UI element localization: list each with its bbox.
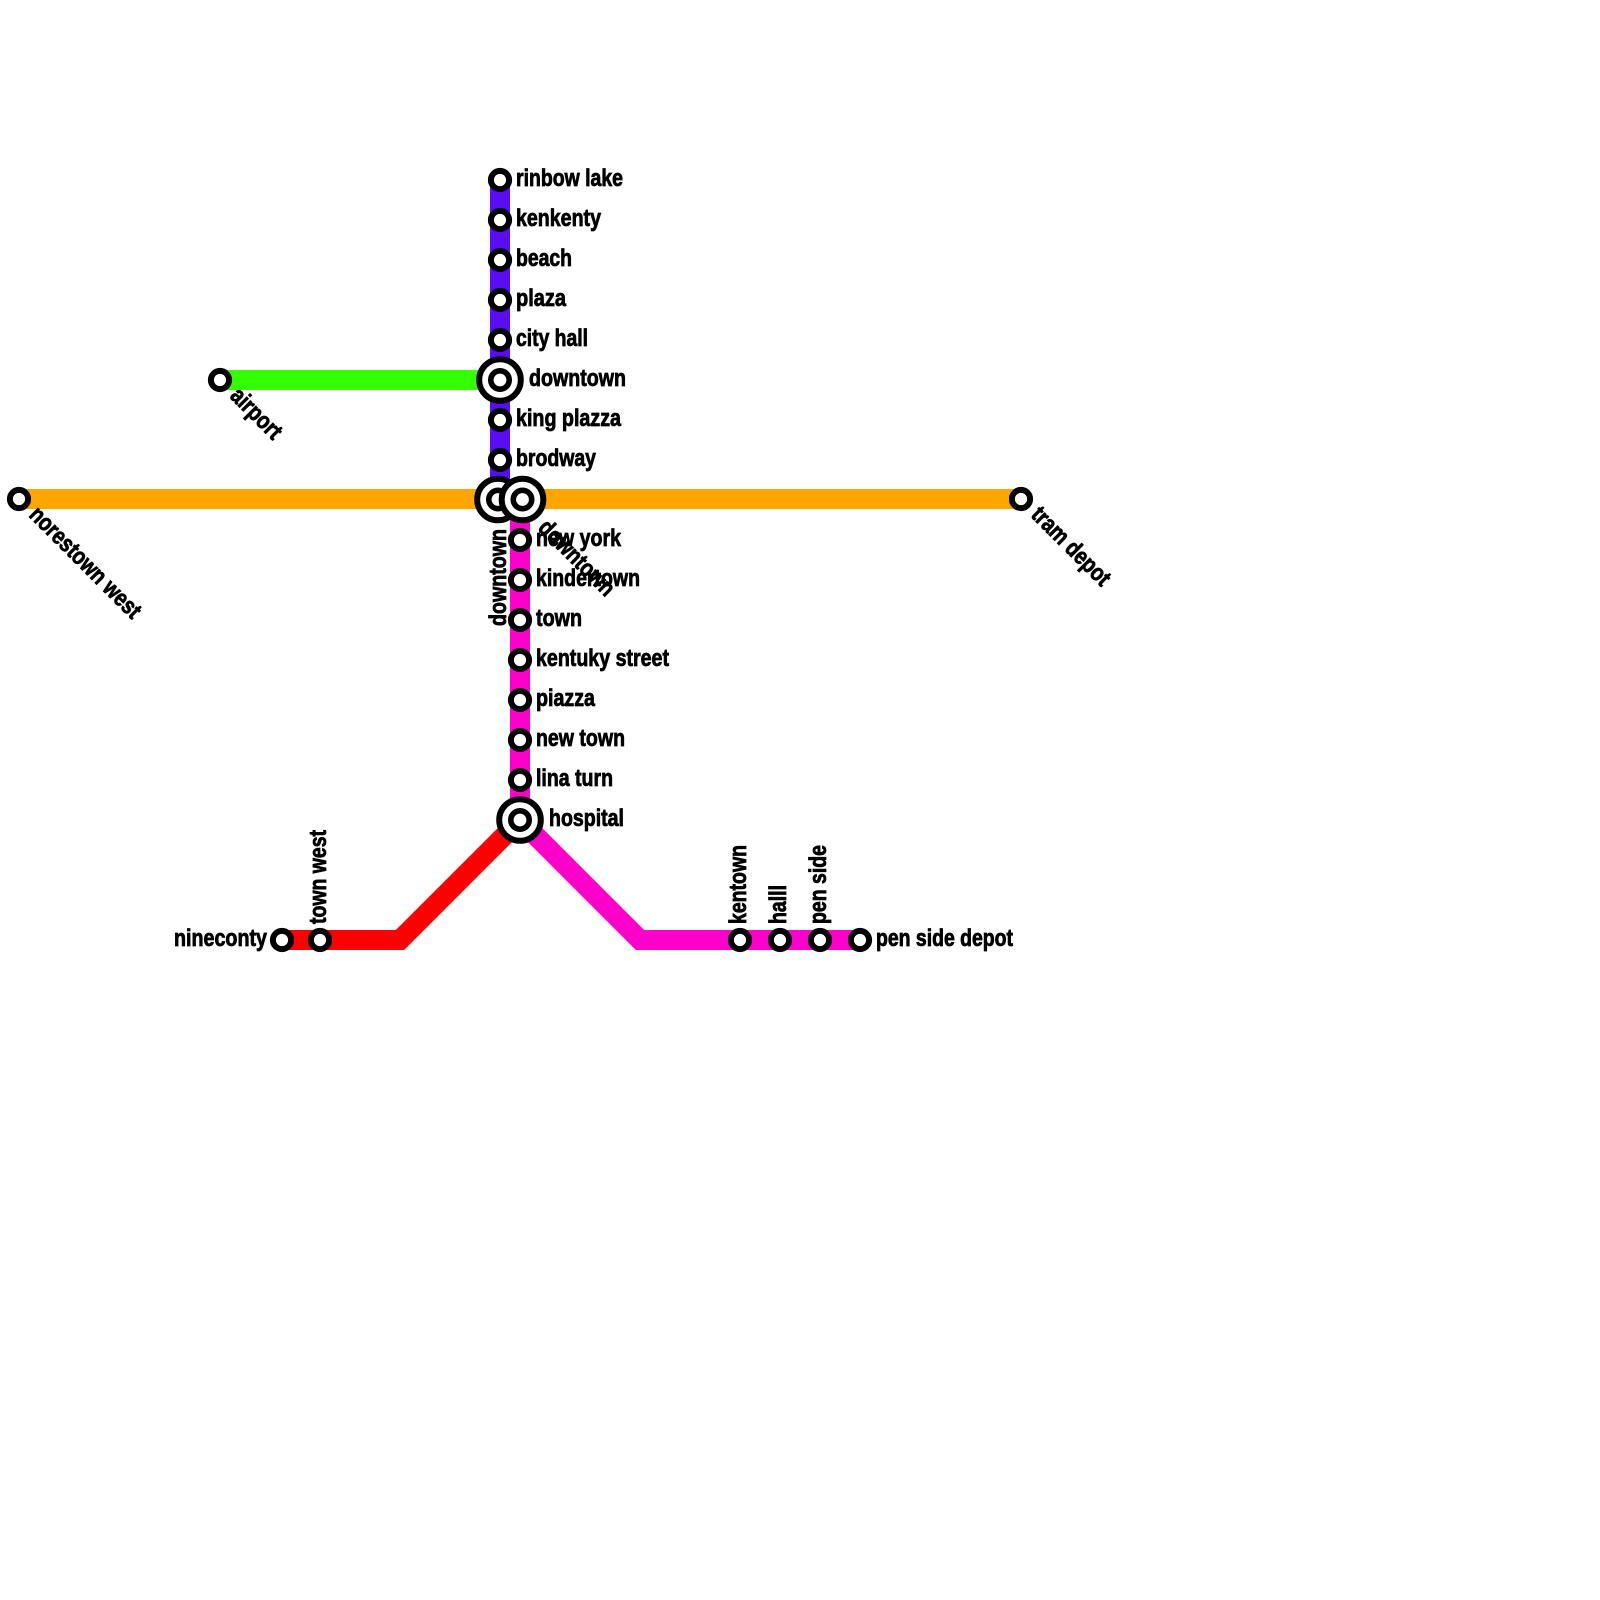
station town bbox=[511, 611, 529, 629]
station king plazza bbox=[491, 411, 509, 429]
svg-text:lina turn: lina turn bbox=[536, 765, 613, 792]
station beach bbox=[491, 251, 509, 269]
station kindertown bbox=[511, 571, 529, 589]
station piazza bbox=[511, 691, 529, 709]
svg-text:king plazza: king plazza bbox=[516, 405, 622, 432]
svg-text:new town: new town bbox=[536, 725, 625, 752]
station kenkenty bbox=[491, 211, 509, 229]
station town west bbox=[311, 931, 329, 949]
interchange hospital bbox=[499, 799, 541, 841]
svg-text:plaza: plaza bbox=[516, 285, 567, 312]
station nineconty bbox=[273, 931, 291, 949]
svg-text:brodway: brodway bbox=[516, 445, 597, 472]
station lina turn bbox=[511, 771, 529, 789]
svg-text:halll: halll bbox=[765, 885, 792, 924]
svg-text:kentuky street: kentuky street bbox=[536, 645, 669, 672]
svg-text:piazza: piazza bbox=[536, 685, 596, 712]
station kentuky street bbox=[511, 651, 529, 669]
svg-text:hospital: hospital bbox=[549, 805, 624, 832]
station rinbow lake bbox=[491, 171, 509, 189]
station city hall bbox=[491, 331, 509, 349]
station new town bbox=[511, 731, 529, 749]
station plaza bbox=[491, 291, 509, 309]
station norestown west bbox=[10, 490, 28, 508]
svg-text:kenkenty: kenkenty bbox=[516, 205, 602, 232]
svg-text:pen side: pen side bbox=[805, 845, 832, 924]
svg-text:beach: beach bbox=[516, 245, 572, 272]
station tram depot bbox=[1012, 490, 1030, 508]
station pen side bbox=[811, 931, 829, 949]
svg-text:pen side depot: pen side depot bbox=[876, 925, 1013, 952]
svg-text:nineconty: nineconty bbox=[174, 925, 268, 952]
svg-text:town: town bbox=[536, 605, 582, 632]
green line (airport - downtown) bbox=[220, 370, 500, 390]
svg-text:town west: town west bbox=[305, 830, 332, 924]
station brodway bbox=[491, 451, 509, 469]
interchange downtown right (orange junction) bbox=[502, 479, 544, 521]
svg-text:downtown: downtown bbox=[529, 365, 626, 392]
red line (hospital - nineconty) bbox=[282, 820, 520, 940]
station halll bbox=[771, 931, 789, 949]
magenta line (downtown - hospital - pen side depot) bbox=[520, 500, 860, 941]
interchange downtown (green junction) bbox=[479, 359, 521, 401]
station airport bbox=[211, 371, 229, 389]
svg-text:kentown: kentown bbox=[725, 845, 752, 924]
purple line (rinbow lake - downtown junction) bbox=[490, 180, 510, 499]
svg-text:rinbow lake: rinbow lake bbox=[516, 165, 623, 192]
svg-text:city hall: city hall bbox=[516, 325, 588, 352]
orange line (norestown west - tram depot) bbox=[19, 489, 1021, 509]
station kentown bbox=[731, 931, 749, 949]
station pen side depot bbox=[851, 931, 869, 949]
interchange downtown left (orange junction) bbox=[477, 479, 519, 521]
svg-text:downtown: downtown bbox=[485, 529, 512, 626]
station new york bbox=[511, 531, 529, 549]
